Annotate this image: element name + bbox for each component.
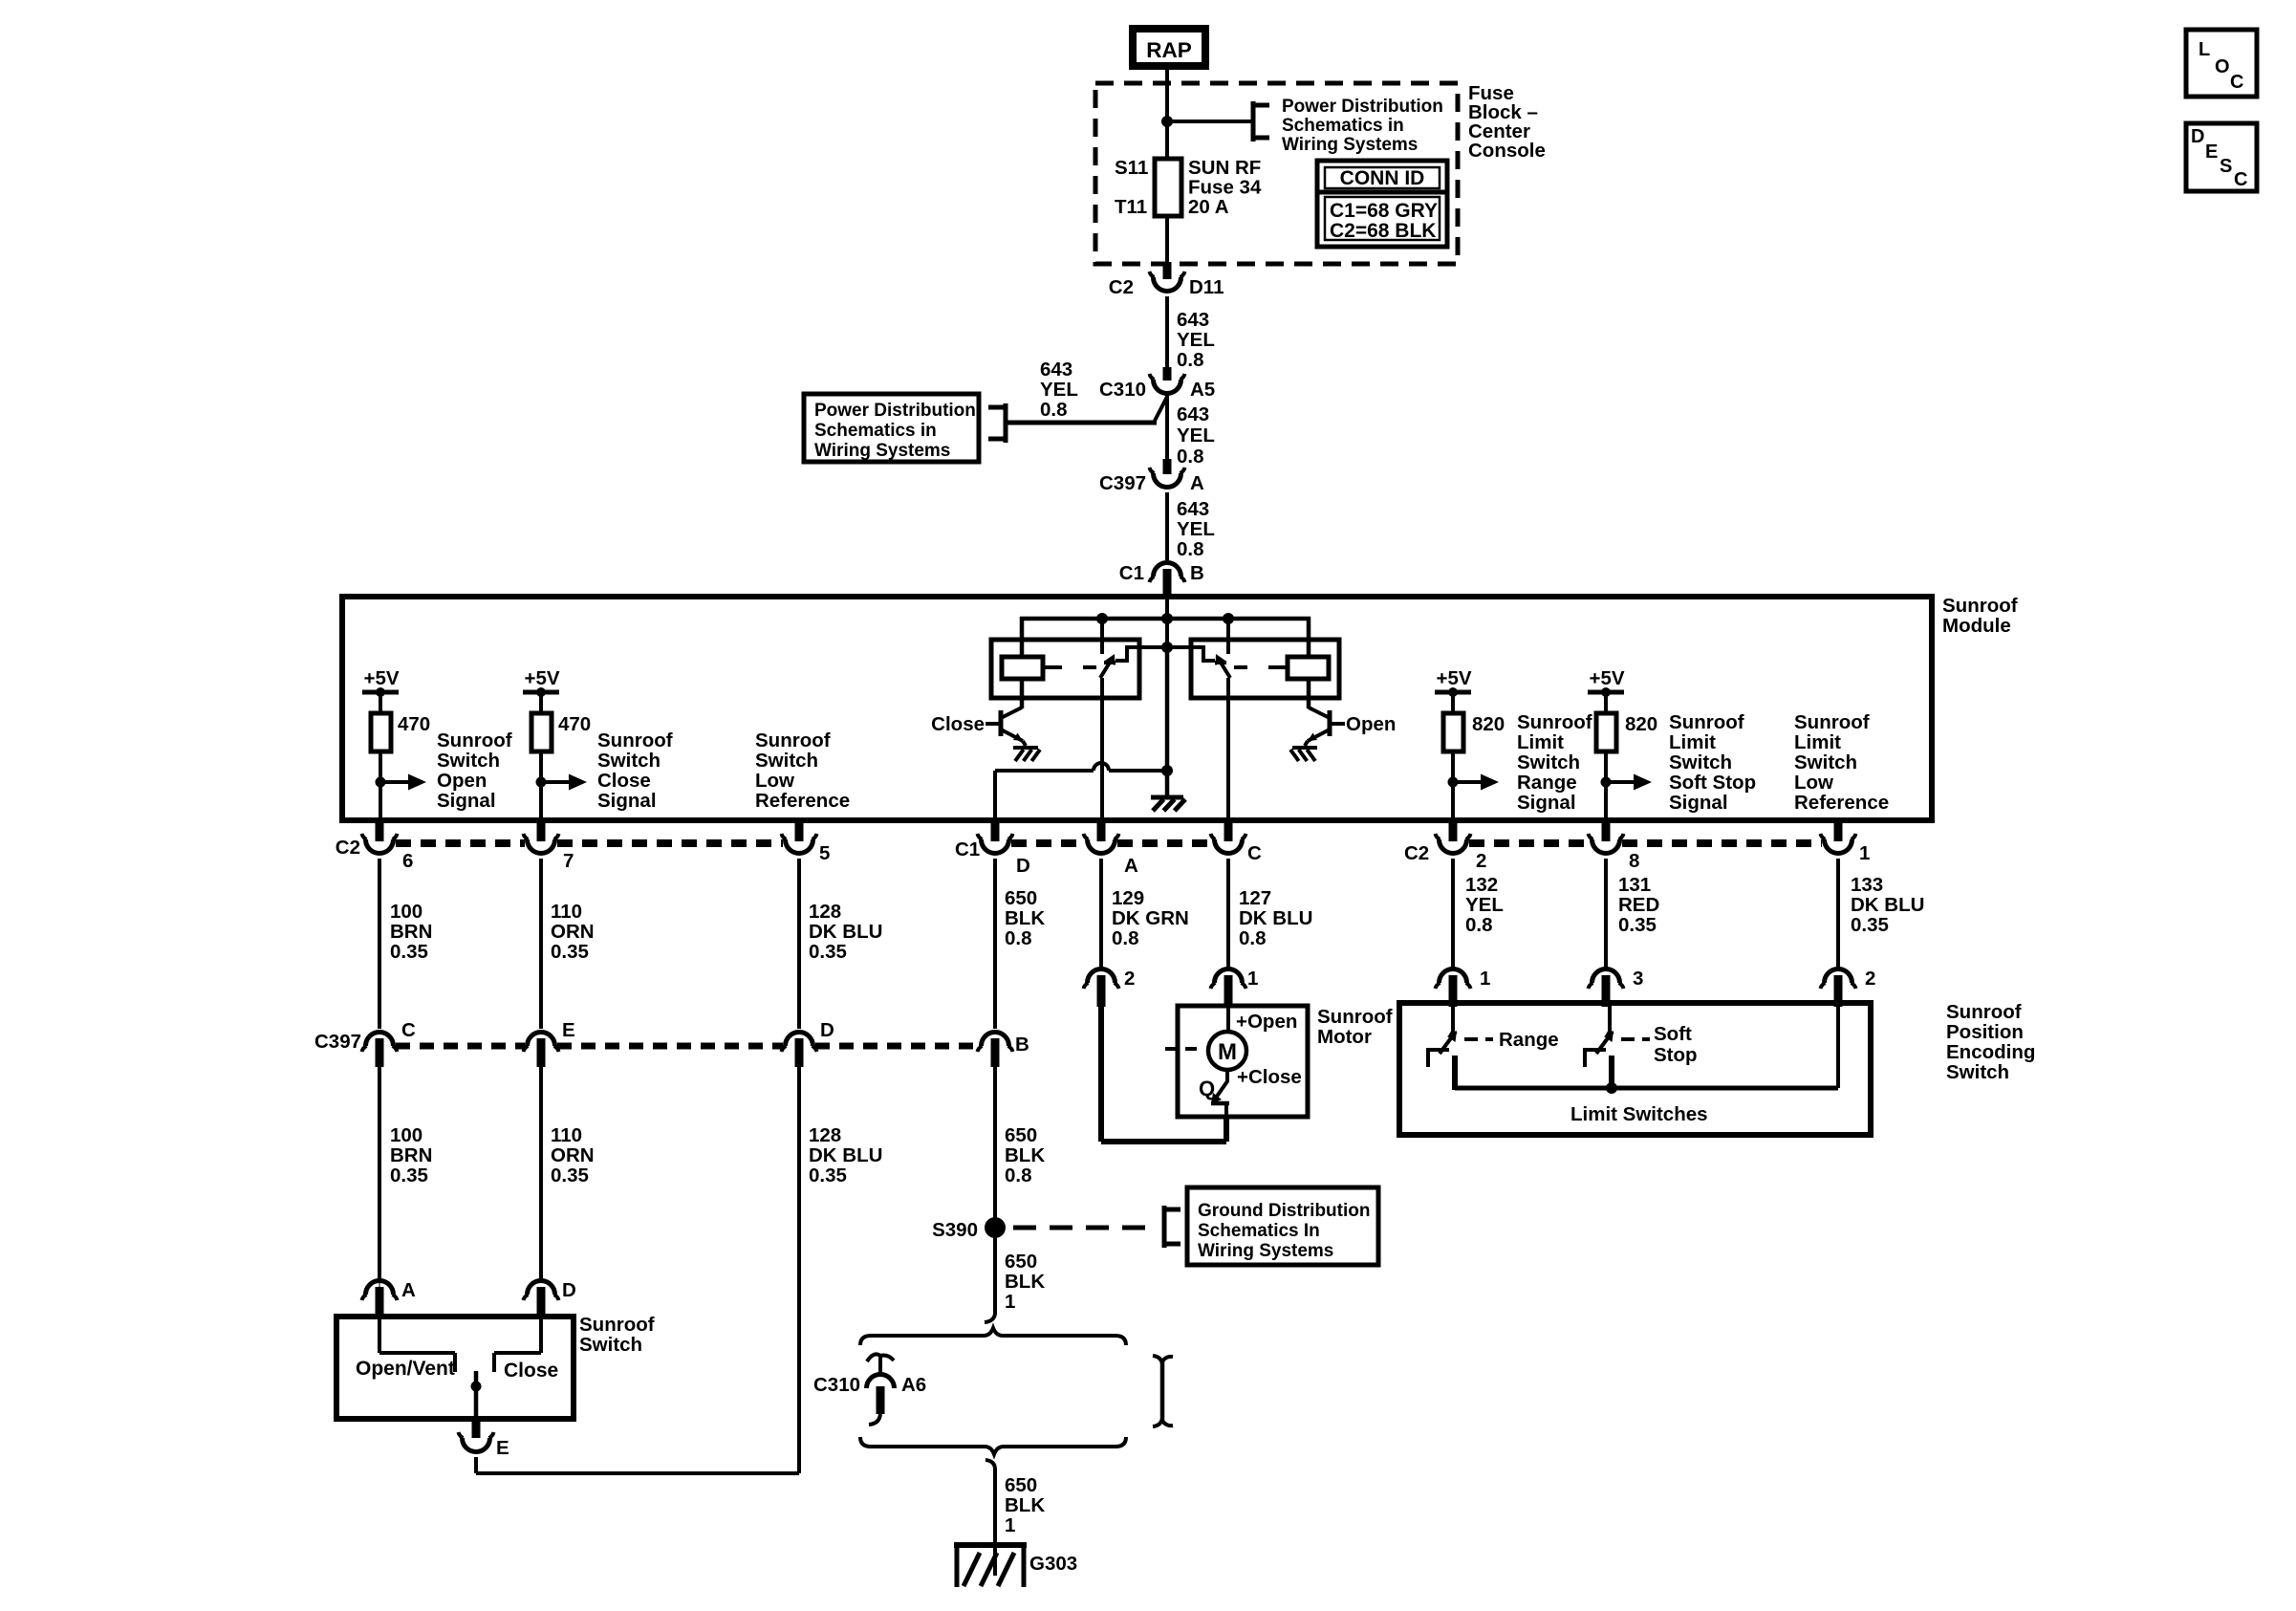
label Sunroof Switch Open Signal [437, 729, 512, 812]
svg-text:3: 3 [1633, 968, 1643, 990]
svg-text:A6: A6 [901, 1374, 926, 1396]
close driver ground [1013, 741, 1040, 761]
harness brace lower [860, 1437, 1126, 1454]
connector C310 pass-through wire [1153, 1356, 1173, 1426]
svg-text:C310: C310 [1099, 379, 1146, 401]
sunroof switch cup pin D [524, 1281, 559, 1317]
svg-text:Switch: Switch [1946, 1061, 2009, 1083]
svg-text:Signal: Signal [1669, 792, 1728, 814]
wire resistor to pin #2 [539, 751, 543, 820]
wire C1-B into module [1165, 595, 1169, 649]
power distribution callout bracket [1253, 101, 1269, 142]
wire pin 1 to motor [1226, 1004, 1230, 1033]
label 100 BRN 0.35 upper [390, 901, 432, 963]
svg-text:C: C [401, 1019, 416, 1041]
motor mechanical link dashes [1165, 1047, 1197, 1051]
wire 128 DK BLU 0.35 lower [476, 1067, 799, 1473]
svg-text:YEL: YEL [1177, 425, 1215, 446]
svg-text:C397: C397 [314, 1031, 361, 1053]
svg-text:ORN: ORN [551, 921, 595, 943]
limit switch common bus [1455, 1004, 1838, 1094]
soft stop limit switch [1583, 1004, 1614, 1090]
svg-text:0.35: 0.35 [1851, 914, 1889, 936]
svg-text:D: D [1016, 855, 1030, 877]
svg-text:0.35: 0.35 [390, 1165, 428, 1186]
connector C397 pin A [1150, 459, 1185, 488]
svg-text:Sunroof: Sunroof [1317, 1006, 1393, 1028]
svg-text:0.8: 0.8 [1005, 1165, 1032, 1186]
svg-text:D: D [2191, 126, 2204, 147]
wire 643 YEL 0.8 (D11 to C310) [1165, 296, 1169, 373]
resistor 470 #1 [371, 695, 430, 751]
svg-text:Motor: Motor [1317, 1026, 1372, 1048]
svg-text:Close: Close [597, 770, 651, 792]
LOC reference box [2186, 30, 2257, 97]
svg-text:Wiring Systems: Wiring Systems [1282, 135, 1418, 155]
ground distribution schematics box [1187, 1187, 1378, 1265]
svg-text:650: 650 [1005, 1124, 1037, 1146]
svg-text:Sunroof: Sunroof [1794, 711, 1870, 733]
label sunroof motor [1317, 1006, 1393, 1048]
wire close relay contact to pin A [1100, 678, 1104, 820]
svg-text:C1=68 GRY: C1=68 GRY [1330, 200, 1438, 222]
svg-text:110: 110 [551, 1124, 582, 1146]
svg-text:Reference: Reference [755, 790, 850, 812]
svg-text:100: 100 [390, 1124, 422, 1146]
svg-text:Signal: Signal [597, 790, 657, 812]
connector C2 left dashed line [396, 839, 783, 847]
svg-text:E: E [2205, 142, 2218, 163]
svg-text:Sunroof: Sunroof [755, 729, 831, 751]
signal arrow #1 [376, 774, 427, 791]
wire fuse to C2 [1165, 216, 1169, 266]
label 650 BLK 0.8 lower [1005, 1124, 1045, 1186]
switch common pole [471, 1371, 482, 1419]
wire motor loop to pin 2 [1101, 1004, 1226, 1142]
svg-text:YEL: YEL [1040, 379, 1078, 401]
svg-text:Limit: Limit [1669, 731, 1716, 753]
harness brace upper [860, 1328, 1126, 1345]
module pin stubs and cups [362, 820, 1856, 854]
svg-text:C1: C1 [1119, 562, 1144, 584]
+5V supply limit #1 [1435, 667, 1472, 697]
wire 820 resistor to pin #1 [1451, 751, 1455, 820]
svg-text:Open: Open [1346, 713, 1396, 735]
svg-text:BLK: BLK [1005, 1271, 1045, 1293]
svg-text:Sunroof: Sunroof [579, 1314, 655, 1336]
label 650 BLK 0.8 upper [1005, 887, 1045, 949]
svg-text:Close: Close [931, 713, 985, 735]
label 100 BRN 0.35 lower [390, 1124, 432, 1186]
svg-text:1: 1 [1005, 1291, 1015, 1313]
wire 110 ORN 0.35 upper [539, 859, 543, 1029]
svg-text:+Open: +Open [1236, 1011, 1297, 1033]
svg-text:0.8: 0.8 [1112, 927, 1139, 949]
RAP voltage source box [1129, 25, 1209, 70]
limit signal arrow #2 [1601, 774, 1653, 791]
label sunroof position encoding switch [1946, 1001, 2035, 1083]
label 643 YEL 0.8 #2 [1177, 403, 1215, 468]
svg-text:A5: A5 [1190, 379, 1215, 401]
wire 110 ORN 0.35 lower [539, 1067, 543, 1283]
connector C397 cups [362, 1033, 1013, 1068]
wire break hook above brace [985, 1306, 995, 1322]
junction dot bus right [1223, 613, 1234, 624]
splice S390 [985, 1217, 1006, 1238]
svg-text:Power Distribution: Power Distribution [1282, 97, 1443, 117]
wire branch to power distribution (643 YEL) [1007, 397, 1167, 423]
svg-text:Soft: Soft [1654, 1023, 1692, 1045]
svg-text:Stop: Stop [1654, 1044, 1698, 1066]
junction dot top bus center [1161, 613, 1173, 624]
label 110 ORN 0.35 lower [551, 1124, 595, 1186]
stub into connector C2 [1163, 262, 1172, 279]
open/vent contact [379, 1316, 455, 1372]
fuse block dashed outline [1095, 83, 1458, 264]
junction dot bus left [1096, 613, 1108, 624]
close relay box [991, 640, 1139, 698]
svg-text:YEL: YEL [1177, 329, 1215, 351]
wire 100 BRN 0.35 lower [378, 1067, 381, 1283]
power distribution schematics box [804, 394, 979, 462]
wire 650 BLK 1 to ground [993, 1472, 997, 1576]
wire resistor to pin #1 [379, 751, 382, 820]
label sunroof module [1942, 595, 2018, 637]
wire 129 DK GRN 0.8 [1099, 859, 1103, 969]
connector C2 pin D11 [1150, 272, 1185, 292]
svg-text:0.35: 0.35 [809, 941, 847, 963]
svg-text:1: 1 [1480, 968, 1490, 990]
svg-text:Close: Close [504, 1360, 558, 1382]
svg-text:L: L [2199, 39, 2210, 60]
svg-text:2: 2 [1865, 968, 1875, 990]
svg-text:C: C [1247, 842, 1262, 864]
svg-text:Schematics In: Schematics In [1198, 1221, 1320, 1241]
label sunroof limit switch low reference [1794, 711, 1889, 814]
svg-text:Module: Module [1942, 615, 2011, 637]
svg-text:C2=68 BLK: C2=68 BLK [1330, 220, 1436, 242]
label 650 BLK 1 upper [1005, 1251, 1045, 1313]
svg-text:DK BLU: DK BLU [1851, 894, 1924, 916]
svg-text:Open: Open [437, 770, 487, 792]
svg-text:5: 5 [819, 842, 830, 864]
svg-text:100: 100 [390, 901, 422, 923]
svg-text:BLK: BLK [1005, 1144, 1045, 1166]
svg-text:0.8: 0.8 [1239, 927, 1267, 949]
svg-text:CONN ID: CONN ID [1340, 167, 1425, 189]
svg-text:A: A [1190, 472, 1204, 494]
svg-text:DK BLU: DK BLU [809, 921, 882, 943]
wire 643 YEL 0.8 (A5 to C397) [1165, 394, 1169, 463]
wire 132 YEL 0.8 [1451, 859, 1455, 969]
junction dot in fuse block [1161, 116, 1173, 127]
svg-text:Low: Low [755, 770, 794, 792]
svg-text:+5V: +5V [1436, 667, 1471, 689]
svg-text:Sunroof: Sunroof [1669, 711, 1744, 733]
wire 128 DK BLU 0.35 upper [797, 859, 801, 1029]
sunroof position encoding switch box [1399, 1003, 1871, 1135]
wire 650 BLK 0.8 upper [993, 859, 997, 1029]
svg-text:Low: Low [1794, 772, 1833, 794]
svg-text:BRN: BRN [390, 921, 432, 943]
label 127 DK BLU 0.8 [1239, 887, 1312, 949]
svg-text:C: C [2230, 72, 2243, 93]
svg-text:Soft Stop: Soft Stop [1669, 772, 1756, 794]
limit switch cup pin 2 [1821, 969, 1856, 1008]
svg-text:C2: C2 [1109, 276, 1134, 298]
connector C1 pin B [1150, 563, 1185, 596]
limit switch cup pin 3 [1589, 969, 1624, 1008]
svg-text:Sunroof: Sunroof [597, 729, 673, 751]
svg-text:127: 127 [1239, 887, 1271, 909]
svg-text:YEL: YEL [1465, 894, 1504, 916]
svg-text:0.8: 0.8 [1040, 399, 1068, 421]
svg-text:Switch: Switch [1517, 751, 1580, 773]
label 131 RED 0.35 [1618, 874, 1659, 936]
svg-text:S11: S11 [1115, 157, 1148, 179]
fuse SUN RF Fuse 34 20 A [1155, 159, 1181, 216]
svg-text:BRN: BRN [390, 1144, 432, 1166]
svg-text:Wiring Systems: Wiring Systems [1198, 1241, 1333, 1261]
svg-text:C1: C1 [955, 838, 980, 860]
svg-text:Signal: Signal [437, 790, 496, 812]
motor connector cup pin 2 [1084, 969, 1119, 1008]
svg-text:Switch: Switch [755, 750, 818, 772]
CONN ID table [1317, 161, 1447, 247]
label 643 YEL 0.8 left [1040, 359, 1078, 421]
svg-text:2: 2 [1476, 850, 1486, 872]
ground G303 [954, 1545, 1027, 1587]
svg-text:Range: Range [1499, 1029, 1559, 1051]
svg-text:C2: C2 [336, 837, 360, 859]
limit switch cup pin 1 [1436, 969, 1471, 1008]
svg-text:0.35: 0.35 [1618, 914, 1657, 936]
wire 133 DK BLU 0.35 [1836, 859, 1840, 969]
svg-text:Open/Vent: Open/Vent [356, 1358, 455, 1380]
close relay coil feed [1020, 617, 1025, 659]
close driver transistor [986, 679, 1023, 741]
pin D ground wire with hop [995, 763, 1173, 820]
ground distribution bracket [1164, 1206, 1180, 1248]
svg-text:Power Distribution: Power Distribution [814, 401, 976, 421]
+5V supply limit #2 [1588, 667, 1625, 697]
svg-text:+5V: +5V [363, 667, 399, 689]
svg-text:DK BLU: DK BLU [809, 1144, 882, 1166]
svg-text:132: 132 [1465, 874, 1498, 896]
wire 100 BRN 0.35 upper [378, 859, 381, 1029]
svg-text:650: 650 [1005, 1251, 1037, 1273]
svg-text:643: 643 [1040, 359, 1072, 381]
svg-text:D11: D11 [1189, 276, 1224, 298]
svg-text:820: 820 [1625, 713, 1657, 735]
svg-text:M: M [1218, 1039, 1237, 1065]
wire pin E low reference [474, 1457, 478, 1473]
svg-text:+Close: +Close [1237, 1066, 1302, 1088]
label Sunroof Switch Close Signal [597, 729, 673, 812]
svg-text:Wiring Systems: Wiring Systems [814, 441, 950, 461]
svg-text:6: 6 [402, 850, 413, 872]
svg-text:7: 7 [563, 850, 574, 872]
svg-text:Limit Switches: Limit Switches [1570, 1103, 1708, 1125]
svg-text:8: 8 [1629, 850, 1639, 872]
connector C310 pin A5 [1150, 367, 1185, 394]
label 128 DK BLU 0.35 lower [809, 1124, 882, 1186]
range mechanical dashes [1464, 1037, 1493, 1041]
svg-text:128: 128 [809, 1124, 841, 1146]
svg-text:Position: Position [1946, 1021, 2024, 1043]
connector C2 right dashed line [1469, 839, 1822, 847]
svg-text:Signal: Signal [1517, 792, 1576, 814]
svg-text:BLK: BLK [1005, 907, 1045, 929]
svg-text:643: 643 [1177, 309, 1209, 331]
svg-text:RAP: RAP [1146, 38, 1192, 62]
svg-text:643: 643 [1177, 498, 1209, 520]
open driver transistor (mirrored) [1290, 679, 1345, 761]
svg-text:110: 110 [551, 901, 582, 923]
wire 131 RED 0.35 [1604, 859, 1608, 969]
svg-text:Sunroof: Sunroof [1517, 711, 1592, 733]
svg-text:C397: C397 [1099, 472, 1146, 494]
svg-text:Schematics in: Schematics in [1282, 116, 1404, 136]
+5V supply #2 [523, 667, 560, 697]
module internal ground [1151, 795, 1183, 800]
svg-text:643: 643 [1177, 403, 1209, 425]
svg-text:Sunroof: Sunroof [1946, 1001, 2022, 1023]
signal arrow #2 [536, 774, 588, 791]
svg-text:T11: T11 [1115, 196, 1147, 218]
connector C397 dashed line [396, 1043, 979, 1050]
label 128 DK BLU 0.35 upper [809, 901, 882, 963]
label soft stop [1654, 1023, 1698, 1066]
svg-text:E: E [496, 1437, 509, 1459]
module internal ground wire [1165, 647, 1170, 795]
svg-text:Switch: Switch [437, 750, 500, 772]
label 129 DK GRN 0.8 [1112, 887, 1189, 949]
svg-text:D: D [562, 1279, 576, 1301]
svg-text:650: 650 [1005, 887, 1037, 909]
svg-text:820: 820 [1472, 713, 1505, 735]
soft stop mechanical dashes [1621, 1037, 1650, 1041]
svg-text:131: 131 [1618, 874, 1651, 896]
svg-text:O: O [2215, 56, 2230, 77]
wire 820 resistor to pin #2 [1604, 751, 1608, 820]
dashed link S390 to ground distribution [1013, 1226, 1147, 1230]
sunroof motor box [1178, 1006, 1308, 1117]
wire 643 YEL 0.8 (C397 to C1) [1165, 492, 1169, 560]
svg-text:C2: C2 [1404, 842, 1429, 864]
connector C1 dashed line [1011, 839, 1212, 847]
svg-text:0.35: 0.35 [551, 941, 589, 963]
svg-text:Sunroof: Sunroof [1942, 595, 2018, 617]
svg-text:Switch: Switch [579, 1334, 642, 1356]
svg-text:Range: Range [1517, 772, 1577, 794]
label power distribution schematics [1282, 97, 1443, 155]
sunroof switch cup pin E [459, 1417, 494, 1452]
svg-text:Sunroof: Sunroof [437, 729, 512, 751]
svg-text:1: 1 [1005, 1514, 1015, 1536]
svg-text:129: 129 [1112, 887, 1144, 909]
svg-text:1: 1 [1247, 968, 1258, 990]
svg-text:+5V: +5V [524, 667, 559, 689]
motor M [1208, 1032, 1246, 1070]
svg-text:Switch: Switch [1794, 751, 1857, 773]
power distribution bracket left [988, 403, 1006, 443]
close relay contact [1100, 619, 1167, 678]
sunroof switch box [336, 1317, 574, 1419]
svg-text:Limit: Limit [1517, 731, 1564, 753]
svg-text:0.35: 0.35 [551, 1165, 589, 1186]
DESC reference box [2186, 123, 2257, 191]
wire 650 BLK 1 below S390 [993, 1228, 997, 1312]
wire 650 BLK 0.8 lower [993, 1067, 997, 1222]
sunroof module box [342, 597, 1932, 820]
svg-text:DK BLU: DK BLU [1239, 907, 1312, 929]
label 643 YEL 0.8 #1 [1177, 309, 1215, 371]
label Sunroof Limit Switch Range Signal [1517, 711, 1592, 814]
label SUN RF Fuse 34 20 A [1188, 157, 1262, 218]
label 132 YEL 0.8 [1465, 874, 1504, 936]
label sunroof switch low reference [755, 729, 850, 812]
+5V supply #1 [362, 667, 400, 697]
wire break hook below brace [986, 1460, 995, 1476]
wire to power distribution callout [1167, 120, 1253, 123]
svg-text:+5V: +5V [1589, 667, 1624, 689]
svg-text:133: 133 [1851, 874, 1883, 896]
svg-text:RED: RED [1618, 894, 1659, 916]
svg-text:B: B [1190, 562, 1204, 584]
wire 127 DK BLU 0.8 [1226, 859, 1230, 969]
svg-text:0.8: 0.8 [1177, 538, 1204, 560]
svg-text:ORN: ORN [551, 1144, 595, 1166]
label Sunroof Limit Switch Soft Stop Signal [1669, 711, 1756, 814]
svg-text:C: C [2234, 169, 2247, 190]
label 643 YEL 0.8 #3 [1177, 498, 1215, 560]
svg-text:0.8: 0.8 [1465, 914, 1493, 936]
junction dot center contacts [1161, 642, 1173, 653]
svg-text:G303: G303 [1029, 1553, 1077, 1575]
svg-text:Switch: Switch [597, 750, 661, 772]
svg-text:128: 128 [809, 901, 841, 923]
label fuse block - center console [1468, 82, 1546, 162]
connector C310 pin A6 [867, 1354, 895, 1425]
svg-text:2: 2 [1124, 968, 1135, 990]
svg-text:Ground Distribution: Ground Distribution [1198, 1201, 1370, 1221]
svg-text:Encoding: Encoding [1946, 1041, 2035, 1063]
limit signal arrow #1 [1448, 774, 1500, 791]
svg-text:Limit: Limit [1794, 731, 1841, 753]
svg-text:C310: C310 [813, 1374, 860, 1396]
svg-text:DK GRN: DK GRN [1112, 907, 1189, 929]
svg-text:A: A [1124, 855, 1138, 877]
svg-text:470: 470 [558, 713, 591, 735]
range limit switch [1426, 1004, 1457, 1090]
relay supply bus [1020, 617, 1310, 621]
sunroof switch cup pin A [362, 1281, 398, 1317]
svg-text:D: D [820, 1019, 834, 1041]
svg-text:A: A [401, 1279, 416, 1301]
svg-text:0.8: 0.8 [1177, 349, 1204, 371]
resistor 820 #2 [1596, 695, 1657, 751]
svg-text:S390: S390 [932, 1219, 978, 1241]
resistor 820 #1 [1443, 695, 1505, 751]
svg-text:470: 470 [398, 713, 430, 735]
open relay (mirrored) [1163, 617, 1339, 820]
svg-text:650: 650 [1005, 1474, 1037, 1496]
close contact [494, 1316, 541, 1372]
svg-text:0.8: 0.8 [1005, 927, 1032, 949]
label 110 ORN 0.35 upper [551, 901, 595, 963]
svg-text:Switch: Switch [1669, 751, 1732, 773]
